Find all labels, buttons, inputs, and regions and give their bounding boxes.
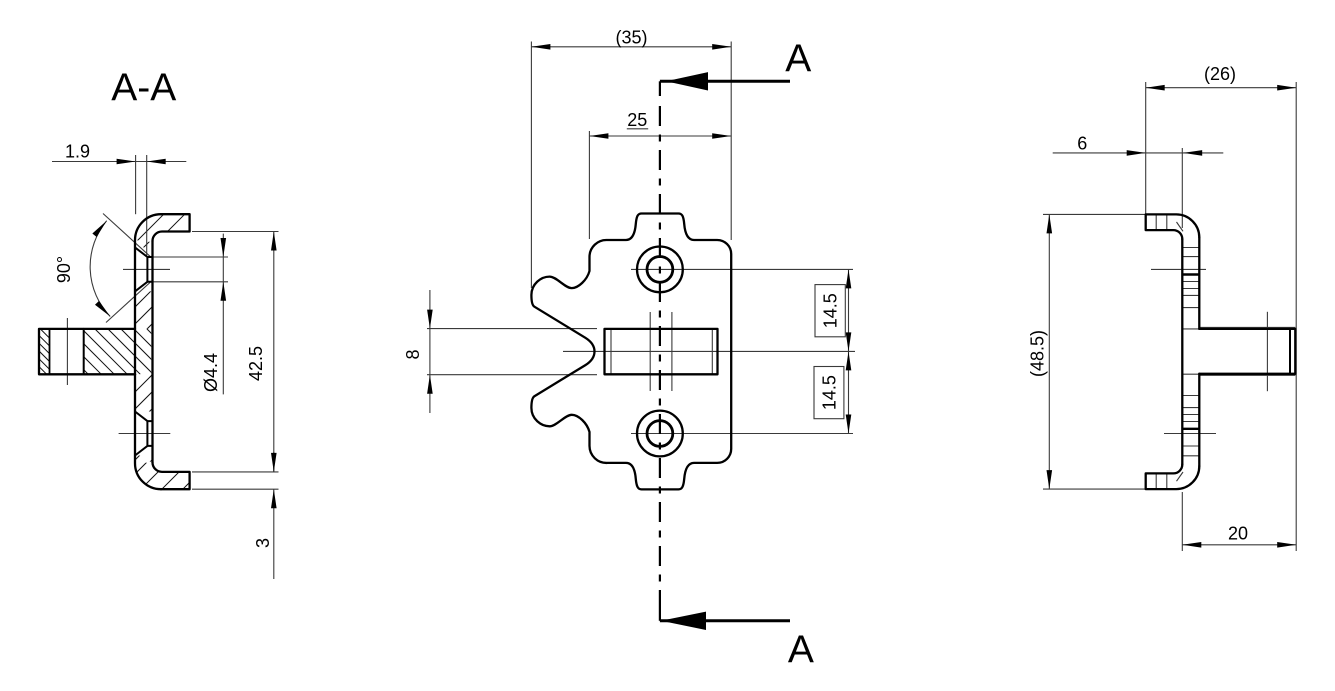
svg-text:(35): (35): [615, 28, 647, 48]
svg-text:90°: 90°: [54, 256, 74, 283]
svg-text:42.5: 42.5: [246, 346, 266, 381]
svg-text:3: 3: [253, 538, 273, 548]
svg-text:Ø4.4: Ø4.4: [201, 353, 221, 392]
svg-text:A: A: [785, 38, 811, 81]
svg-text:6: 6: [1077, 133, 1087, 153]
svg-text:1.9: 1.9: [65, 142, 90, 162]
svg-text:14.5: 14.5: [820, 375, 840, 410]
svg-text:(48.5): (48.5): [1028, 330, 1048, 377]
svg-text:A-A: A-A: [111, 67, 176, 110]
svg-text:25: 25: [627, 110, 647, 130]
svg-text:20: 20: [1228, 523, 1248, 543]
svg-text:(26): (26): [1204, 64, 1236, 84]
svg-text:A: A: [788, 628, 814, 671]
svg-text:14.5: 14.5: [821, 293, 841, 328]
svg-text:8: 8: [403, 349, 423, 359]
